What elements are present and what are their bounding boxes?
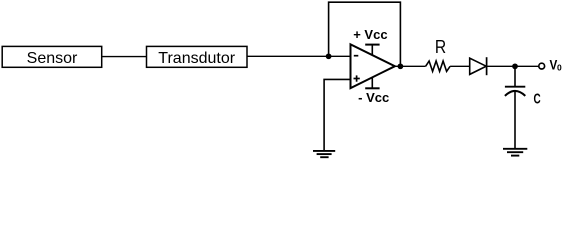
resistor R <box>426 37 451 72</box>
node junction on inverting input <box>326 53 332 59</box>
wire resistor to diode <box>450 65 470 67</box>
wire diode to output node <box>487 65 539 67</box>
ground (capacitor) <box>503 149 527 156</box>
node output junction <box>398 63 404 69</box>
ground (op-amp input) <box>313 151 335 157</box>
svg-text:R: R <box>435 37 446 57</box>
svg-text:Sensor: Sensor <box>27 50 78 67</box>
svg-text:0: 0 <box>557 62 562 72</box>
wire node down to capacitor <box>514 66 516 86</box>
capacitor C <box>505 87 541 108</box>
node output V0 junction <box>512 63 518 69</box>
wire capacitor to ground <box>514 92 516 149</box>
wire feedback loop <box>329 2 401 66</box>
wire non-inverting input to ground <box>324 79 350 150</box>
block Sensor <box>2 46 102 67</box>
wire Transdutor to op-amp inverting input <box>247 55 351 57</box>
positive supply pin <box>371 45 373 56</box>
diode D1 <box>470 57 487 75</box>
terminal V0 (open circle) <box>539 63 545 69</box>
svg-text:+ Vcc: + Vcc <box>353 27 387 42</box>
negative supply pin <box>371 77 373 88</box>
wire op-amp output to resistor <box>395 65 426 67</box>
block Transdutor <box>147 46 248 67</box>
plus sign (non-inverting input) <box>354 78 360 80</box>
wire Sensor to Transdutor <box>102 56 147 58</box>
svg-text:- Vcc: - Vcc <box>358 90 389 105</box>
minus sign (inverting input) <box>354 55 359 57</box>
op-amp U1 <box>351 27 395 105</box>
svg-text:C: C <box>534 91 542 107</box>
svg-text:Transdutor: Transdutor <box>158 50 235 67</box>
